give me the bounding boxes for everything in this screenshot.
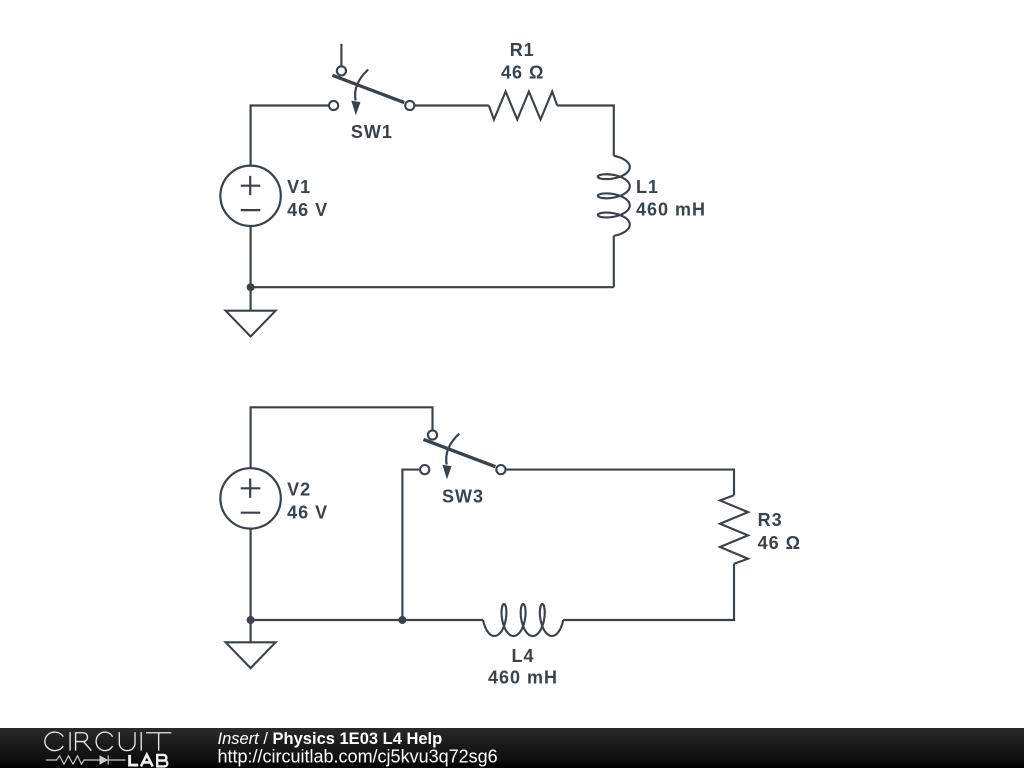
inductor L4 xyxy=(483,604,563,636)
svg-text:46 Ω: 46 Ω xyxy=(758,533,801,553)
svg-text:460 mH: 460 mH xyxy=(488,668,558,688)
inductor L1 xyxy=(598,156,630,236)
footer bar xyxy=(0,728,1024,768)
CircuitLab logo: resistor-diode squiggle xyxy=(46,755,126,764)
CircuitLab logo: CIRCUIT lettering xyxy=(45,732,171,751)
resistor R3 xyxy=(720,495,748,563)
wire: SW1 top terminal stub (open) xyxy=(340,44,342,66)
wire: V1 negative terminal down to ground xyxy=(250,226,252,311)
svg-text:V1: V1 xyxy=(287,177,311,197)
svg-text:R1: R1 xyxy=(510,40,535,60)
svg-text:460 mH: 460 mH xyxy=(636,200,706,220)
wire: SW1 right terminal to R1 xyxy=(410,104,489,106)
svg-text:http://circuitlab.com/cj5kvu3q: http://circuitlab.com/cj5kvu3q72sg6 xyxy=(218,747,498,767)
CircuitLab logo: LAB xyxy=(130,755,168,767)
svg-text:SW3: SW3 xyxy=(442,486,484,506)
wire: SW3 left terminal left and down to bottom rail xyxy=(402,470,424,620)
voltage source V1 xyxy=(220,166,280,226)
wire: bottom rail (ground net, L1 to V1-) xyxy=(251,286,614,288)
wire: V2 positive terminal up, right, down to SW3 top terminal xyxy=(251,407,433,468)
svg-text:L1: L1 xyxy=(636,177,659,197)
svg-text:46 V: 46 V xyxy=(287,200,328,220)
wire: bottom rail from V2- junction to L4 xyxy=(251,619,484,621)
svg-text:Insert / Physics 1E03 L4 Help: Insert / Physics 1E03 L4 Help xyxy=(218,730,443,748)
resistor R1 xyxy=(489,92,557,120)
wire: SW3 right terminal right and down to R3 xyxy=(501,470,734,496)
junction: V2- / bottom rail / ground xyxy=(247,616,255,624)
switch SW1 xyxy=(329,66,414,115)
voltage source V2 xyxy=(220,468,280,528)
svg-text:46 V: 46 V xyxy=(287,503,328,523)
svg-text:L4: L4 xyxy=(511,646,534,666)
svg-text:V2: V2 xyxy=(287,480,311,500)
junction: SW3 left branch / bottom rail xyxy=(398,616,406,624)
junction: V1- / bottom rail / ground xyxy=(247,283,255,291)
wire: R1 to L1 (top right corner) xyxy=(557,106,614,156)
wire: R3 bottom to L4 right end xyxy=(563,564,734,620)
ground symbol GND2 xyxy=(226,642,276,668)
svg-text:SW1: SW1 xyxy=(351,122,393,142)
ground symbol GND1 xyxy=(226,311,276,337)
svg-text:46 Ω: 46 Ω xyxy=(501,62,544,82)
wire: V1 positive terminal up and right to SW1 left terminal xyxy=(251,106,334,167)
switch SW3 xyxy=(420,430,505,479)
wire: L1 bottom to bottom rail xyxy=(613,236,615,287)
svg-text:R3: R3 xyxy=(758,510,783,530)
wire: V2 negative terminal down to ground xyxy=(250,529,252,643)
